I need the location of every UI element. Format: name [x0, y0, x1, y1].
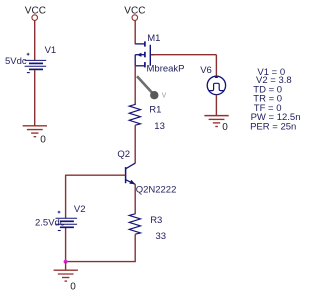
- svg-text:PER = 25n: PER = 25n: [250, 122, 296, 133]
- dc source V1: [25, 53, 47, 73]
- wire M1 gate to V6: [151, 54, 216, 56]
- svg-text:2.5Vdc: 2.5Vdc: [35, 217, 65, 228]
- channel bar middle: [144, 52, 146, 58]
- drain stub (bottom): [135, 65, 144, 67]
- svg-text:Q2: Q2: [117, 149, 130, 160]
- svg-text:0: 0: [70, 282, 76, 293]
- svg-text:Q2N2222: Q2N2222: [136, 184, 177, 195]
- wire V1 - to ground: [34, 70, 36, 126]
- source stub (top): [135, 43, 144, 45]
- transistor Q2: [126, 163, 136, 184]
- channel bar bottom: [144, 62, 146, 67]
- bulk stub (middle): [135, 54, 144, 56]
- wire ground rail horizontal: [66, 261, 136, 263]
- emitter diagonal: [126, 180, 135, 185]
- bulk-source tie (left vertical): [134, 55, 136, 66]
- dc source V2: [56, 211, 78, 231]
- svg-text:V6: V6: [200, 65, 212, 76]
- wire V2 - to ground junction: [65, 228, 67, 262]
- wire M1 drain to R1: [134, 66, 136, 104]
- svg-text:R3: R3: [150, 215, 162, 226]
- svg-text:V2: V2: [74, 204, 86, 215]
- wire VCC to V1 +: [34, 20, 36, 60]
- bulk arrow (P-channel): [137, 53, 141, 57]
- voltage marker v (probe): [137, 76, 152, 92]
- plus tick: [215, 76, 218, 78]
- svg-text:V1: V1: [45, 45, 57, 56]
- wire R3 to ground rail: [134, 234, 136, 261]
- svg-text:0: 0: [222, 122, 228, 133]
- svg-text:5Vdc: 5Vdc: [5, 56, 27, 67]
- ground 0 (below V6): [204, 116, 228, 127]
- ground 0 (below V1): [23, 126, 47, 137]
- wire Q2 emitter to R3: [134, 184, 136, 213]
- gate bar: [149, 45, 151, 66]
- svg-text:0: 0: [40, 135, 46, 146]
- base bar: [125, 167, 127, 183]
- svg-text:MbreakP: MbreakP: [147, 64, 185, 75]
- svg-text:13: 13: [154, 121, 165, 132]
- svg-text:M1: M1: [147, 33, 160, 44]
- gate lead: [150, 54, 154, 56]
- collector diagonal: [126, 163, 135, 169]
- svg-text:33: 33: [156, 231, 167, 242]
- ground 0 (bottom): [54, 270, 78, 281]
- pulse source V6: [207, 76, 225, 94]
- waveform: [209, 83, 224, 90]
- wire Q2 base to V2: [66, 174, 126, 176]
- wire VCC to M1 source: [134, 20, 136, 44]
- svg-text:v: v: [162, 90, 167, 100]
- MOSFET M1 MbreakP: [135, 41, 154, 67]
- emitter arrow: [129, 180, 135, 184]
- channel bar top: [144, 41, 146, 46]
- junction: [64, 260, 68, 264]
- wire R1 to Q2 collector: [134, 125, 136, 163]
- wire V6 to ground: [215, 95, 217, 116]
- resistor R3: [129, 213, 140, 234]
- wire junction to ground: [65, 262, 67, 271]
- resistor R1: [129, 104, 140, 125]
- svg-text:R1: R1: [149, 104, 161, 115]
